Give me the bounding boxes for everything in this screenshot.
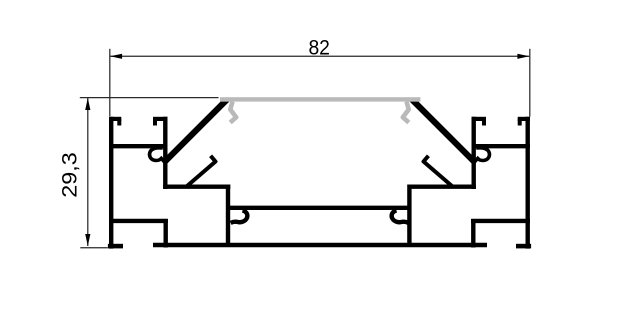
left top lip nub [117,119,121,126]
right lower vertical [471,219,475,248]
channel left wall [226,185,230,248]
left second lip nub [153,119,157,126]
dimension 29,3 bottom arrowhead [85,234,90,246]
gasket right hook (gray) [403,102,409,123]
left outer wall [109,117,113,249]
right upper-bottom bar [409,184,476,188]
channel left curl [231,211,248,223]
right mid bar [472,144,531,148]
left lower vertical [163,219,167,248]
left upper-bottom bar [163,184,230,188]
channel top bar [228,206,411,210]
left second wall [163,117,167,189]
right second lip nub [482,119,486,126]
left inner stub [187,156,216,187]
left top lip [109,117,121,121]
right inner stub [424,156,453,187]
dimension 29,3 bottom extension line [80,247,108,249]
right second wall [472,117,476,189]
left second top lip [153,117,168,121]
channel right wall [407,185,411,248]
right second top lip [472,117,487,121]
left foot [108,244,123,249]
dimension 82 right extension line [529,49,531,117]
dimension 82 left extension line [109,49,111,116]
gasket strip (gray) [220,97,420,101]
svg-text:29,3: 29,3 [58,152,82,198]
dimension 29,3 line [87,98,89,246]
dimension 82 line [110,55,529,57]
right outer wall [526,117,530,249]
dimension 82 left arrowhead [110,54,122,59]
right top lip nub [518,119,522,126]
right lower bar [471,219,530,223]
left lower bar [109,219,168,223]
channel right curl [392,211,409,223]
dimension 29,3 top extension line [80,97,219,99]
dimension 82 right arrowhead [517,54,529,59]
right foot [516,244,531,249]
bottom base line [153,243,487,248]
left glazing diagonal [168,102,230,164]
right glazing diagonal [410,102,472,164]
dimension 29,3 top arrowhead [85,98,90,110]
right top lip [518,117,530,121]
left screw-port curl [150,148,166,164]
svg-text:82: 82 [308,36,330,60]
right screw-port curl [473,148,489,164]
gasket left hook (gray) [230,102,236,123]
left mid bar [109,144,168,148]
